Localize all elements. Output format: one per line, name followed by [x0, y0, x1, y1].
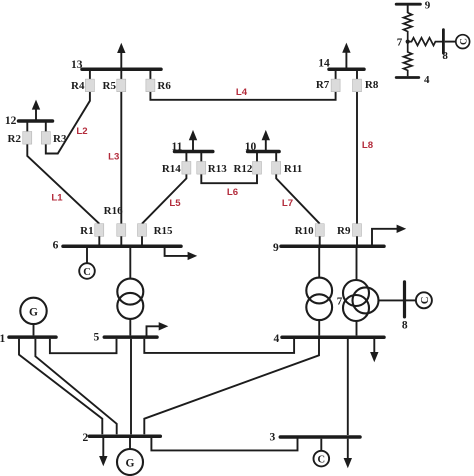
wire bus10 to R12	[256, 152, 258, 162]
svg-text:8: 8	[442, 50, 448, 62]
bus 6	[63, 244, 181, 248]
wire bus10 to R11	[275, 152, 277, 162]
line L7 (R11 to R10)	[276, 174, 320, 224]
generator G at bus 1	[20, 298, 46, 336]
line L2 (R4 to R3)	[46, 92, 90, 154]
svg-text:C: C	[83, 267, 91, 278]
wire R9 to bus9	[356, 236, 358, 244]
bus 3	[280, 435, 360, 439]
svg-text:C: C	[420, 297, 431, 305]
svg-text:R10: R10	[295, 225, 314, 237]
svg-text:12: 12	[5, 115, 17, 127]
svg-text:L3: L3	[108, 151, 119, 162]
svg-text:R11: R11	[284, 163, 302, 175]
wire bus12 to R2	[26, 121, 28, 132]
load arrow bus 13	[117, 43, 125, 68]
wire bus11 to R13	[200, 152, 202, 162]
svg-text:13: 13	[71, 59, 83, 71]
svg-text:4: 4	[424, 74, 430, 86]
svg-text:2: 2	[83, 432, 89, 444]
svg-text:R15: R15	[154, 225, 173, 237]
svg-text:3: 3	[269, 431, 275, 443]
wire bus13 to R4	[89, 69, 91, 79]
svg-text:8: 8	[402, 319, 408, 331]
generator G at bus 2	[117, 438, 143, 475]
svg-text:R1: R1	[80, 225, 93, 237]
wire bus14 to R8	[356, 69, 358, 79]
bus 11	[175, 150, 213, 154]
svg-text:R2: R2	[8, 133, 22, 145]
bus 5	[104, 335, 157, 339]
svg-text:L1: L1	[51, 192, 63, 203]
relay R4	[85, 79, 94, 92]
svg-text:C: C	[459, 38, 469, 45]
line 2-3	[151, 437, 297, 450]
bus 12	[19, 119, 53, 123]
line L8 (R8 to R9)	[356, 92, 358, 224]
svg-text:R14: R14	[162, 163, 181, 175]
svg-text:L5: L5	[169, 198, 181, 209]
svg-text:9: 9	[273, 242, 279, 254]
bus 9	[281, 244, 384, 248]
svg-text:7: 7	[397, 36, 403, 48]
svg-text:C: C	[318, 455, 326, 466]
svg-text:R16: R16	[104, 205, 123, 217]
wire bus13 to R6	[149, 69, 151, 79]
relay R9	[353, 224, 362, 237]
line L6 (R13 to R12)	[201, 174, 257, 183]
svg-text:R9: R9	[337, 225, 351, 237]
bus 4	[282, 335, 384, 339]
bus 13	[82, 68, 161, 72]
line 1-2 circuit B	[35, 339, 116, 435]
load arrow bus 11	[189, 130, 197, 150]
relay R6	[146, 79, 155, 92]
svg-text:G: G	[29, 307, 38, 319]
condenser C in insert	[456, 35, 470, 49]
relay R2	[23, 132, 32, 145]
line 2-4	[144, 339, 319, 434]
load arrow bus 12	[32, 100, 40, 120]
svg-text:L4: L4	[236, 87, 248, 98]
line 1-2 circuit A	[19, 339, 102, 435]
bus 8	[403, 282, 406, 317]
wire transformer7 to bus 8	[379, 299, 404, 301]
line 3-4	[347, 339, 349, 435]
relay R1	[95, 224, 104, 237]
svg-text:6: 6	[53, 240, 59, 252]
transformer 9-4	[306, 248, 332, 335]
svg-text:L7: L7	[282, 198, 293, 209]
condenser C at bus 6	[79, 248, 95, 279]
svg-text:R4: R4	[71, 80, 85, 92]
load arrow bus 6	[165, 248, 198, 261]
load arrow bus 4	[370, 339, 378, 362]
svg-text:R7: R7	[316, 79, 330, 91]
svg-text:L2: L2	[76, 126, 87, 137]
relay R15	[138, 224, 147, 237]
bus 2	[89, 434, 160, 438]
line L5 (R14 to R15)	[142, 174, 186, 224]
wire insert bus9 to resistor	[407, 4, 409, 13]
svg-text:R3: R3	[53, 133, 67, 145]
bus 1	[9, 335, 56, 339]
wire bus14 to R7	[335, 69, 337, 79]
svg-text:1: 1	[0, 333, 5, 345]
load arrow bus 14	[342, 43, 350, 68]
node 7	[406, 40, 410, 44]
svg-text:R5: R5	[103, 80, 117, 92]
svg-text:11: 11	[172, 141, 183, 153]
relay R16	[117, 224, 126, 237]
relay R8	[353, 79, 362, 92]
wire R15 to bus6	[141, 236, 143, 244]
condenser C at bus 3	[314, 439, 330, 467]
svg-text:R6: R6	[157, 80, 171, 92]
wire insert bus8 to condenser	[445, 41, 456, 43]
relay R12	[253, 162, 262, 175]
svg-text:4: 4	[273, 333, 279, 345]
wire R16 to bus6	[120, 236, 122, 244]
svg-text:L8: L8	[362, 140, 374, 151]
load arrow bus 5	[147, 322, 169, 336]
line L1 (R2 to R1)	[27, 144, 99, 224]
load arrow bus 2	[99, 438, 107, 466]
load arrow bus 3	[344, 439, 352, 469]
bus 14	[329, 68, 364, 72]
resistor 9-7	[404, 13, 412, 42]
svg-text:14: 14	[318, 57, 330, 69]
svg-text:L6: L6	[227, 187, 238, 198]
svg-text:9: 9	[425, 0, 431, 12]
relay R3	[41, 132, 50, 145]
resistor 7-8	[408, 38, 443, 46]
wire R1 to bus6	[98, 236, 100, 244]
three-winding transformer 7	[343, 248, 379, 335]
line L3 (R5 to R16)	[120, 92, 122, 224]
wire bus13 to R5	[120, 69, 122, 79]
insert bus 4	[396, 76, 419, 79]
relay R13	[197, 162, 206, 175]
svg-text:G: G	[126, 458, 135, 470]
relay R14	[182, 162, 191, 175]
wire bus 8 to condenser	[406, 299, 416, 301]
svg-text:R13: R13	[208, 163, 227, 175]
relay R10	[315, 224, 324, 237]
wire bus11 to R14	[185, 152, 187, 162]
load arrow bus 9	[372, 225, 406, 245]
relay R5	[117, 79, 126, 92]
transformer 5-6	[117, 248, 143, 335]
svg-text:R12: R12	[233, 163, 252, 175]
relay R11	[272, 162, 281, 175]
svg-text:10: 10	[245, 141, 257, 153]
load arrow bus 10	[262, 130, 270, 150]
resistor 7-4	[404, 42, 412, 77]
svg-text:5: 5	[93, 332, 99, 344]
line L4 (R6 to R7)	[150, 92, 335, 100]
condenser C at bus 8	[416, 292, 432, 308]
bus 10	[248, 150, 280, 154]
insert bus 8	[442, 30, 445, 53]
relay R7	[331, 79, 340, 92]
line 1-5	[50, 339, 117, 353]
insert bus 9	[396, 3, 420, 6]
line 4-5	[144, 339, 294, 353]
svg-text:R8: R8	[365, 79, 379, 91]
wire bus12 to R3	[45, 121, 47, 132]
wire R10 to bus9	[319, 236, 321, 244]
svg-text:7: 7	[337, 296, 343, 308]
line 2-5	[130, 339, 132, 435]
